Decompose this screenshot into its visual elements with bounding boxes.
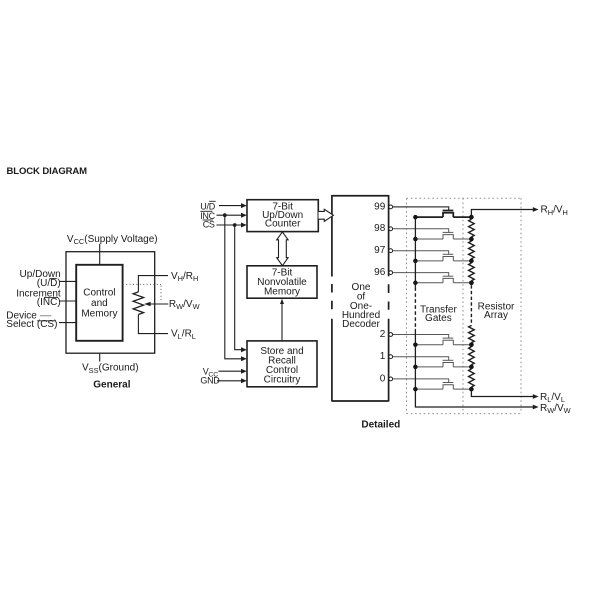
resistor above tap 2 (469, 326, 475, 343)
potentiometer resistor element (133, 292, 143, 315)
junction bus tap 99 (413, 215, 418, 220)
wire INC into counter (217, 214, 244, 216)
svg-text:97: 97 (374, 245, 386, 256)
wire INC down to store/recall (225, 215, 243, 359)
svg-text:BLOCK DIAGRAM: BLOCK DIAGRAM (7, 166, 88, 177)
dashed chain continuation 96-2 (470, 285, 472, 325)
overline over INC (44, 296, 58, 298)
resistor 98-97 (469, 241, 475, 259)
wire VH/RH (138, 276, 168, 292)
wire CS down to store/recall (235, 225, 243, 350)
resistor 99-98 (469, 219, 475, 237)
junction bus tap 2 (413, 342, 418, 347)
svg-text:U/D: U/D (200, 201, 215, 211)
svg-text:2: 2 (380, 329, 386, 340)
overline INC (200, 210, 212, 212)
wire RL/VL output (471, 389, 533, 396)
dash after Device label (40, 315, 51, 317)
transfer gate 96 (393, 273, 449, 277)
dotted divider / box Resistor Array (463, 198, 521, 413)
svg-text:CS: CS (203, 220, 215, 230)
box One of One-Hundred Decoder (broken borders) (332, 196, 389, 401)
wire U/D input (59, 280, 76, 282)
svg-text:Gates: Gates (425, 313, 452, 324)
svg-text:GND: GND (200, 375, 220, 385)
junction resistor tap 0 (469, 387, 474, 392)
box 7-Bit Nonvolatile Memory (247, 266, 317, 298)
wiper bus dashed middle (414, 287, 416, 329)
box Store and Recall Control Circuitry (247, 341, 317, 387)
junction resistor tap 98 (469, 237, 474, 242)
junction resistor tap 99 (469, 215, 474, 220)
svg-text:0: 0 (380, 373, 386, 384)
pin circle 99 (389, 205, 393, 209)
wire GND into store/recall (217, 380, 243, 382)
arrowhead RL/VL (533, 394, 539, 399)
svg-text:Array: Array (484, 310, 508, 321)
svg-text:Circuitry: Circuitry (264, 374, 301, 385)
wire VCC into store/recall (218, 370, 243, 372)
svg-text:98: 98 (374, 223, 386, 234)
svg-text:Memory: Memory (81, 309, 117, 320)
transfer gate 99 (selected, bold) (393, 207, 449, 211)
svg-text:Memory: Memory (264, 287, 300, 298)
pin circle 2 (389, 333, 393, 337)
svg-text:Decoder: Decoder (342, 319, 380, 330)
resistor 97-96 (469, 263, 475, 281)
wire VCC supply stub (99, 244, 101, 265)
junction bus tap 97 (413, 259, 418, 264)
overline over CS (37, 320, 56, 322)
wire VSS ground stub (99, 354, 101, 362)
svg-text:(U/D): (U/D) (37, 278, 61, 289)
overline over D of (U/D) (50, 278, 57, 280)
junction bus tap 1 (413, 365, 418, 370)
arrow store/recall to memory (281, 302, 283, 341)
svg-text:96: 96 (374, 267, 386, 278)
junction INC (223, 213, 227, 217)
junction resistor tap 97 (469, 259, 474, 264)
svg-text:and: and (91, 298, 108, 309)
svg-text:Detailed: Detailed (361, 420, 400, 431)
box Control and Memory (76, 265, 122, 341)
pin circle 0 (389, 377, 393, 381)
svg-text:1: 1 (380, 351, 386, 362)
transfer gate 98 (393, 229, 449, 233)
overline D (209, 200, 215, 202)
svg-text:General: General (93, 379, 130, 390)
transfer gate 2 (393, 335, 449, 339)
overline CS (203, 219, 213, 221)
wire INC input (59, 300, 76, 302)
wiper arrow (144, 302, 150, 306)
resistor 1-0 (469, 369, 475, 387)
outer box (General device) (66, 252, 155, 354)
pin circle 1 (389, 355, 393, 359)
hollow arrow counter to decoder (319, 209, 334, 221)
junction CS (233, 223, 237, 227)
svg-text:Counter: Counter (265, 218, 301, 229)
pin circle 97 (389, 249, 393, 253)
junction bus tap 0 (413, 387, 418, 392)
dotted box Transfer Gates (407, 198, 522, 413)
transfer gate 0 (393, 379, 449, 383)
arrowhead RH/VH (533, 207, 539, 212)
wire VL/RL (138, 315, 168, 334)
resistor 2-1 (469, 347, 475, 365)
junction bus tap 96 (413, 281, 418, 286)
dotted control line to wiper (123, 284, 161, 300)
wiper bus solid top (414, 217, 416, 287)
pin circle 96 (389, 271, 393, 275)
wire CS into counter (217, 224, 244, 226)
pin circle 98 (389, 227, 393, 231)
svg-text:Control: Control (83, 288, 115, 299)
arrowhead RW/VW (533, 405, 539, 410)
box 7-Bit Up/Down Counter (247, 200, 318, 232)
junction bus tap 98 (413, 237, 418, 242)
junction resistor tap 1 (469, 365, 474, 370)
transfer gate 97 (393, 251, 449, 255)
bidirectional arrow counter-memory (277, 232, 288, 266)
svg-text:(INC): (INC) (37, 297, 61, 308)
wiper bus solid bottom + RW/VW output wire (415, 329, 533, 407)
junction resistor tap 96 (469, 280, 474, 285)
transfer gate 1 (393, 357, 449, 361)
svg-text:99: 99 (374, 201, 386, 212)
wire RH/VH output (471, 210, 533, 218)
wire CS input (59, 322, 76, 324)
wire RW wiper (149, 303, 168, 305)
wire U/D into counter (219, 205, 243, 207)
junction resistor tap 2 (469, 342, 474, 347)
